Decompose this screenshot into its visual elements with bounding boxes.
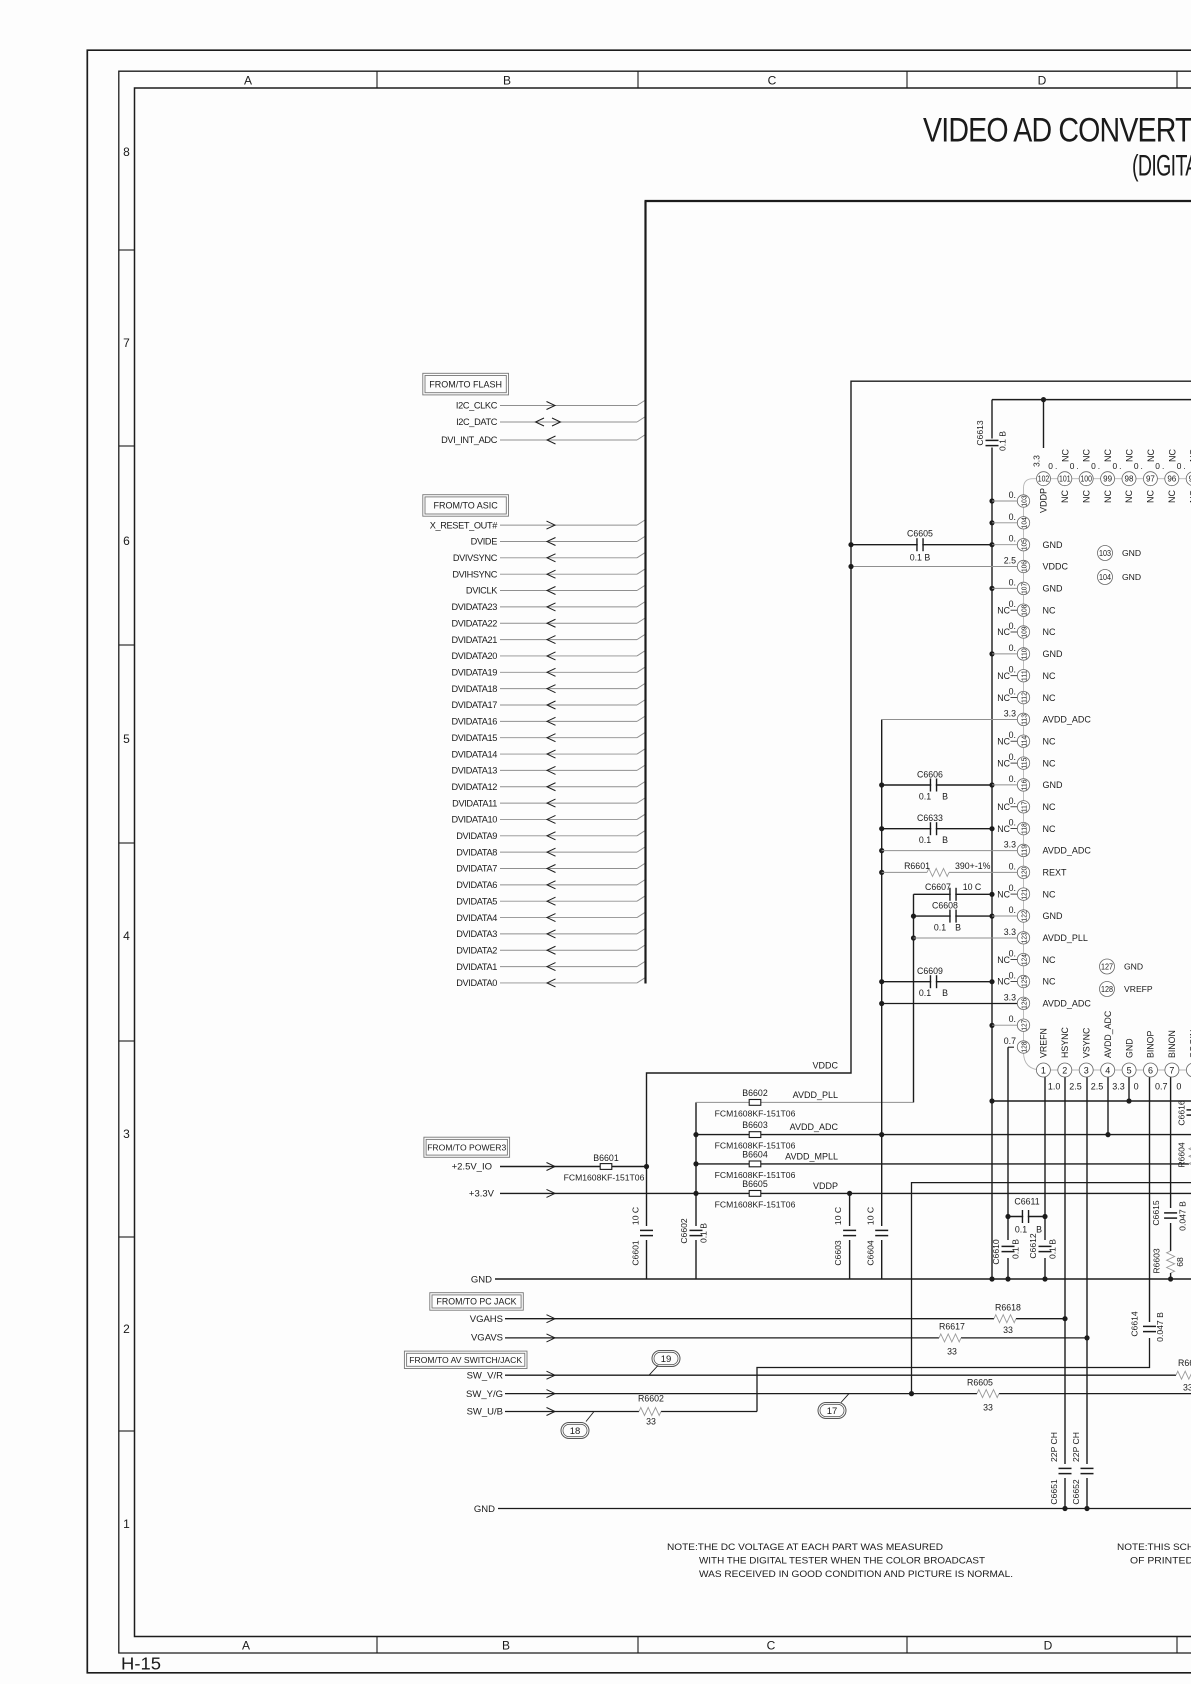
svg-text:R6603: R6603 [1152,1248,1162,1274]
svg-text:I2C_DATC: I2C_DATC [456,417,498,427]
svg-text:NC: NC [1043,736,1056,746]
svg-text:3.3: 3.3 [1032,455,1042,467]
wire AVDD_PLL to pin 123 [914,937,1018,939]
svg-text:3: 3 [1084,1066,1089,1076]
svg-text:GND: GND [1124,962,1143,972]
svg-text:R6616: R6616 [1178,1358,1191,1368]
svg-text:C: C [767,1639,776,1653]
svg-text:103: 103 [1099,549,1111,558]
svg-text:96: 96 [1167,475,1176,484]
svg-text:DVIDATA10: DVIDATA10 [451,815,497,825]
svg-text:B6602: B6602 [742,1088,768,1098]
svg-text:DVIDATA19: DVIDATA19 [451,668,497,678]
svg-text:AVDD_ADC: AVDD_ADC [1043,999,1092,1009]
pin 97 [1143,472,1157,486]
svg-text:NC: NC [1043,627,1056,637]
svg-text:GND: GND [474,1504,495,1515]
svg-text:0.: 0. [1009,534,1016,544]
svg-text:DVIVSYNC: DVIVSYNC [453,553,498,563]
svg-text:NC: NC [997,627,1010,637]
svg-text:DVIDATA15: DVIDATA15 [451,733,497,743]
svg-text:C: C [768,73,777,87]
row dividers left band [119,249,135,251]
svg-text:R6604: R6604 [1177,1142,1187,1168]
pin 101 [1058,472,1072,486]
svg-text:H-15: H-15 [121,1654,161,1674]
pin 110 [992,653,1017,655]
svg-text:GND: GND [1043,540,1064,550]
svg-text:DVIDATA16: DVIDATA16 [451,717,497,727]
wire SW_Y/G vertical riser [912,1183,1191,1394]
wire SW_U/B jog up to BINOP [757,1338,1150,1412]
svg-text:C6633: C6633 [917,813,943,823]
svg-text:R6602: R6602 [638,1394,664,1404]
svg-text:DVIDATA7: DVIDATA7 [456,864,497,874]
wire GND pin 5 drop [1128,1077,1130,1101]
svg-text:FROM/TO AV SWITCH/JACK: FROM/TO AV SWITCH/JACK [409,1355,522,1365]
net GND bus (vertical x=992) [991,448,993,1280]
svg-text:SW_Y/G: SW_Y/G [466,1389,503,1400]
svg-text:VREFN: VREFN [1039,1028,1049,1058]
svg-text:0.047 B: 0.047 B [1155,1312,1165,1342]
svg-text:NOTE:THIS SCHEMATIC D: NOTE:THIS SCHEMATIC D [1117,1542,1191,1552]
svg-text:GND: GND [1043,911,1064,921]
svg-text:B: B [503,73,511,87]
svg-text:0.7: 0.7 [1155,1082,1168,1092]
svg-text:3.3: 3.3 [1004,708,1016,718]
svg-text:C6606: C6606 [917,770,943,780]
svg-text:NC: NC [1043,955,1056,965]
capacitor C6605 [851,544,992,546]
svg-text:AVDD_PLL: AVDD_PLL [793,1090,838,1100]
svg-text:111: 111 [1020,670,1029,681]
pin 109 [1017,626,1029,638]
pin 105 [992,544,1017,546]
svg-text:33: 33 [983,1402,993,1412]
svg-text:GND: GND [1122,572,1141,582]
svg-text:0.: 0. [1177,461,1188,471]
svg-text:NC: NC [1146,449,1156,462]
pin 115 [1017,757,1029,769]
svg-text:A: A [244,73,252,87]
svg-text:0.: 0. [1155,461,1166,471]
capacitor C6602 [690,1231,703,1235]
svg-text:10 C: 10 C [833,1207,843,1225]
wire VDDC to pin 106 [851,566,1017,568]
svg-text:0.1 B: 0.1 B [998,431,1008,451]
svg-text:8: 8 [123,145,130,159]
svg-text:SW_V/R: SW_V/R [467,1370,504,1381]
svg-text:5: 5 [123,732,130,746]
svg-text:0.: 0. [1113,461,1124,471]
svg-text:FROM/TO ASIC: FROM/TO ASIC [433,501,498,511]
pin 3 [1079,1063,1093,1077]
svg-text:+3.3V: +3.3V [469,1189,495,1200]
svg-text:3.3: 3.3 [1004,839,1016,849]
svg-text:120: 120 [1020,867,1029,878]
svg-text:0.: 0. [1009,774,1016,784]
block FROM/TO AV SWITCH/JACK [404,1351,527,1368]
svg-text:DVIDATA11: DVIDATA11 [452,798,497,808]
svg-text:116: 116 [1020,779,1029,790]
wire VREFP pin 128 drop [1008,1046,1014,1048]
svg-text:DVIDATA1: DVIDATA1 [456,962,497,972]
svg-text:4: 4 [1105,1066,1110,1076]
svg-text:DVIDATA21: DVIDATA21 [451,635,497,645]
pin 104 [992,522,1017,524]
svg-text:19: 19 [661,1354,672,1365]
capacitor C6603 [849,1193,851,1226]
svg-text:NOTE:THE DC VOLTAGE AT EACH PA: NOTE:THE DC VOLTAGE AT EACH PART WAS MEA… [667,1542,943,1552]
svg-text:NC: NC [997,605,1010,615]
svg-text:FCM1608KF-151T06: FCM1608KF-151T06 [715,1199,796,1209]
svg-text:0.: 0. [1048,461,1059,471]
svg-text:AVDD_MPLL: AVDD_MPLL [785,1152,838,1162]
svg-text:0.1: 0.1 [1015,1225,1027,1235]
svg-text:NC: NC [997,736,1010,746]
svg-text:C6651: C6651 [1049,1479,1059,1505]
svg-text:0.047 B: 0.047 B [1178,1201,1188,1231]
svg-text:X_RESET_OUT#: X_RESET_OUT# [430,520,499,530]
capacitor C6613 [991,400,993,439]
svg-text:0.: 0. [1091,461,1102,471]
svg-text:C6609: C6609 [917,966,943,976]
svg-text:3.3: 3.3 [1004,992,1016,1002]
svg-text:NC: NC [1060,490,1070,503]
svg-text:DVIDATA4: DVIDATA4 [456,913,497,923]
ferrite bead B6602 [749,1100,761,1106]
wire VSYNC pin 3 drop [1086,1077,1088,1464]
resistor R6617 [939,1334,961,1342]
node 18 [561,1423,589,1439]
svg-text:0.: 0. [1009,490,1016,500]
pin 95 [1186,472,1191,486]
svg-text:NC: NC [1043,824,1056,834]
svg-text:122: 122 [1020,910,1029,921]
svg-text:DVIHSYNC: DVIHSYNC [452,569,497,579]
svg-text:FCM1608KF-151T06: FCM1608KF-151T06 [564,1173,645,1183]
svg-text:NC: NC [1043,977,1056,987]
svg-text:0.1 B: 0.1 B [910,553,931,563]
ferrite bead B6603 [749,1132,761,1138]
svg-text:2.5: 2.5 [1069,1082,1082,1092]
pin 112 [1017,691,1029,703]
svg-text:125: 125 [1020,976,1029,987]
svg-text:C6652: C6652 [1071,1479,1081,1505]
svg-text:124: 124 [1020,954,1029,965]
svg-text:103: 103 [1020,496,1029,507]
svg-text:0.: 0. [1009,861,1016,871]
svg-text:OF PRINTED WIRI: OF PRINTED WIRI [1130,1556,1191,1566]
svg-text:68: 68 [1175,1257,1185,1267]
svg-text:4: 4 [123,929,130,943]
pin 120 [1017,866,1029,878]
pin 103 [992,500,1017,502]
svg-text:AVDD_ADC: AVDD_ADC [1043,715,1092,725]
pin 127 [992,1024,1017,1026]
svg-text:100: 100 [1080,475,1092,484]
svg-text:B6605: B6605 [742,1179,768,1189]
svg-text:DVIDATA23: DVIDATA23 [451,602,497,612]
svg-text:HSYNC: HSYNC [1060,1027,1070,1058]
svg-text:DVIDATA5: DVIDATA5 [456,896,497,906]
svg-text:NC: NC [997,977,1010,987]
svg-text:126: 126 [1020,998,1029,1009]
svg-text:0.7: 0.7 [1004,1036,1016,1046]
capacitor C6604 (on AVDD bus x=882) [875,1231,888,1235]
svg-text:NC: NC [997,671,1010,681]
svg-text:VDDC: VDDC [1043,562,1069,572]
svg-text:NC: NC [1125,449,1135,462]
svg-text:R6605: R6605 [967,1377,993,1387]
svg-text:2: 2 [1062,1066,1067,1076]
pin 111 [1017,670,1029,682]
svg-text:AVDD_ADC: AVDD_ADC [1043,846,1092,856]
svg-text:SW_U/B: SW_U/B [467,1407,503,1418]
svg-text:0.1: 0.1 [919,792,931,802]
svg-text:1: 1 [123,1517,130,1531]
resistor R6605 [977,1390,999,1398]
svg-text:C6615: C6615 [1151,1200,1161,1226]
svg-text:127: 127 [1101,963,1113,972]
wire VREFN pin 1 drop [1044,1077,1046,1240]
svg-text:B: B [955,923,961,933]
svg-text:DVIDATA14: DVIDATA14 [451,749,497,759]
svg-text:C6607: C6607 [925,882,951,892]
svg-text:117: 117 [1020,801,1029,812]
bus DVI data/control to IC (vertical) [644,201,646,984]
svg-text:NC: NC [1043,889,1056,899]
svg-text:33: 33 [646,1417,656,1427]
svg-text:BINON: BINON [1167,1030,1177,1058]
capacitor C6616 [1187,1110,1191,1114]
net VDDC wire [647,381,1191,1226]
svg-text:123: 123 [1020,932,1029,943]
svg-text:C6612: C6612 [1028,1233,1038,1259]
svg-text:GND: GND [1122,548,1141,558]
svg-text:C6608: C6608 [932,901,958,911]
svg-text:B: B [1036,1225,1042,1235]
wire AVDD_ADC [696,1134,1191,1136]
svg-text:128: 128 [1020,1042,1029,1053]
svg-text:NC: NC [997,889,1010,899]
svg-text:NC: NC [1043,802,1056,812]
svg-text:WITH THE DIGITAL TESTER WHEN T: WITH THE DIGITAL TESTER WHEN THE COLOR B… [699,1556,985,1566]
svg-text:0.: 0. [1134,461,1145,471]
ferrite bead B6605 (on VDDP wire) [749,1191,761,1197]
pin 107 [992,587,1017,589]
svg-text:6: 6 [1148,1066,1153,1076]
capacitor C6651 [1059,1469,1072,1473]
svg-text:104: 104 [1020,517,1029,528]
svg-text:GND: GND [1043,584,1064,594]
svg-text:0.1: 0.1 [934,923,946,933]
svg-text:NC: NC [1043,671,1056,681]
ferrite bead B6604 [749,1161,761,1167]
svg-text:VDDC: VDDC [812,1061,838,1071]
wire BINOP pin 6 drop [1149,1077,1151,1322]
bus DVI data/control to IC (top rail) [645,200,1191,202]
svg-text:114: 114 [1020,736,1029,747]
svg-text:DVIDATA12: DVIDATA12 [451,782,497,792]
svg-text:0.: 0. [1070,461,1081,471]
svg-text:C6603: C6603 [833,1240,843,1266]
node pin 104 GND bubble [1098,570,1113,585]
svg-text:115: 115 [1020,758,1029,769]
svg-text:0.: 0. [1009,905,1016,915]
svg-text:3.3: 3.3 [1004,927,1016,937]
svg-text:WAS RECEIVED IN GOOD CONDITION: WAS RECEIVED IN GOOD CONDITION AND PICTU… [699,1569,1013,1579]
svg-text:NC: NC [997,758,1010,768]
svg-text:DVI_INT_ADC: DVI_INT_ADC [441,435,498,445]
wire AVDD_ADC to pin 119 [882,850,1018,852]
svg-text:104: 104 [1099,573,1111,582]
svg-text:VSYNC: VSYNC [1081,1027,1091,1058]
svg-text:0.: 0. [1009,643,1016,653]
svg-text:DVIDATA13: DVIDATA13 [451,766,497,776]
svg-text:22P CH: 22P CH [1049,1432,1059,1462]
svg-text:DVIDE: DVIDE [471,537,498,547]
svg-text:3: 3 [123,1127,130,1141]
svg-text:0.1 B: 0.1 B [1011,1239,1021,1259]
svg-text:0: 0 [1134,1082,1139,1092]
capacitor C6615 [1164,1213,1177,1217]
node 17 [818,1403,846,1419]
svg-text:NC: NC [997,693,1010,703]
svg-text:DVIDATA20: DVIDATA20 [451,651,497,661]
capacitor C6612 [1039,1247,1052,1251]
svg-text:NC: NC [1082,449,1092,462]
svg-text:10 C: 10 C [631,1207,641,1225]
pin 8 [1186,1063,1191,1077]
svg-text:33: 33 [1183,1383,1191,1393]
svg-text:AVDD_PLL: AVDD_PLL [1043,933,1088,943]
svg-text:NC: NC [1043,605,1056,615]
svg-text:GND: GND [471,1274,492,1285]
svg-text:22P CH: 22P CH [1071,1432,1081,1462]
op IC boundary chain [1024,479,1191,1070]
svg-text:B: B [942,792,948,802]
pin 108 [1017,604,1029,616]
net AVDD_ADC 3.3V bus (vertical x=882) [881,720,883,1227]
pin 122 [992,915,1017,917]
wire VDDP to pin 102 [1043,400,1045,448]
wire BINON pin 7 drop [1170,1077,1172,1208]
svg-text:7: 7 [1169,1066,1174,1076]
svg-text:108: 108 [1020,605,1029,616]
svg-text:5: 5 [1127,1066,1132,1076]
svg-text:112: 112 [1020,692,1029,703]
svg-text:C6610: C6610 [991,1239,1001,1265]
svg-text:VGAVS: VGAVS [471,1333,503,1344]
svg-text:FROM/TO PC JACK: FROM/TO PC JACK [437,1297,517,1307]
svg-text:106: 106 [1020,561,1029,572]
capacitor C6608 [914,915,993,917]
pin 4 [1101,1063,1115,1077]
svg-text:33: 33 [947,1347,957,1357]
svg-text:VGAHS: VGAHS [470,1314,503,1325]
pin 2 [1058,1063,1072,1077]
pin 113 [1017,713,1029,725]
svg-text:110: 110 [1020,648,1029,659]
svg-text:109: 109 [1020,627,1029,638]
svg-text:AVDD_ADC: AVDD_ADC [790,1122,839,1132]
block FROM/TO FLASH [423,373,509,395]
svg-text:DVIDATA2: DVIDATA2 [456,945,497,955]
pin 96 [1165,472,1179,486]
pin 128 [1017,1041,1029,1053]
svg-text:18: 18 [570,1426,581,1437]
svg-text:DVIDATA22: DVIDATA22 [451,618,497,628]
svg-text:NC: NC [1124,490,1134,503]
svg-text:FROM/TO POWER3: FROM/TO POWER3 [427,1142,506,1152]
svg-text:R6601: R6601 [904,861,930,871]
svg-text:128: 128 [1101,985,1113,994]
svg-text:NC: NC [997,802,1010,812]
capacitor C6614 [1143,1327,1156,1331]
capacitor C6611 [1008,1216,1045,1218]
svg-text:NC: NC [1146,490,1156,503]
svg-text:R6617: R6617 [939,1322,965,1332]
wire AVDD_ADC pin 4 drop [1107,1077,1109,1135]
svg-text:DVIDATA3: DVIDATA3 [456,929,497,939]
svg-text:10 C: 10 C [866,1207,876,1225]
svg-text:A: A [242,1639,250,1653]
pin 118 [1017,822,1029,834]
block FROM/TO POWER3 [424,1137,510,1157]
svg-text:99: 99 [1103,475,1112,484]
block FROM/TO ASIC [423,495,509,517]
svg-text:98: 98 [1125,475,1134,484]
svg-text:0.1 B: 0.1 B [1048,1239,1058,1259]
block FROM/TO PC JACK [430,1293,524,1311]
svg-text:B6604: B6604 [742,1150,768,1160]
svg-text:C6614: C6614 [1130,1311,1140,1337]
capacitor C6609 [882,981,992,983]
node pin 127 GND bubble [1100,959,1115,974]
node 19 [652,1351,680,1367]
wire AVDD_MPLL [696,1163,1191,1165]
capacitor C6652 [1081,1469,1094,1473]
column dividers top band [376,71,378,88]
svg-text:33: 33 [1003,1325,1013,1335]
svg-text:NC: NC [1103,449,1113,462]
pin 121 [1017,888,1029,900]
capacitor C6610 [1002,1247,1015,1251]
svg-text:C6601: C6601 [631,1240,641,1266]
wire AVDD_ADC to pin 113 [882,719,1018,721]
wire AVDD_PLL [696,1101,914,1103]
svg-text:D: D [1038,73,1047,87]
svg-text:C6605: C6605 [907,529,933,539]
svg-text:BINOP: BINOP [1146,1030,1156,1058]
svg-text:VIDEO AD CONVERTER S: VIDEO AD CONVERTER S [923,112,1191,150]
net VDDP rail (top) [992,399,1191,401]
pin 102 [1037,472,1051,486]
svg-text:(DIGITAL CO: (DIGITAL CO [1132,150,1191,183]
pin 119 [1017,844,1029,856]
pin 100 [1079,472,1093,486]
pin 114 [1017,735,1029,747]
svg-text:C6604: C6604 [866,1240,876,1266]
svg-text:C6613: C6613 [975,420,985,446]
svg-text:0.1: 0.1 [919,988,931,998]
svg-text:3.3: 3.3 [1112,1082,1125,1092]
resistor R6602 [639,1408,661,1416]
svg-text:R6618: R6618 [995,1303,1021,1313]
svg-text:DVIDATA17: DVIDATA17 [451,700,497,710]
svg-text:17: 17 [827,1406,838,1417]
